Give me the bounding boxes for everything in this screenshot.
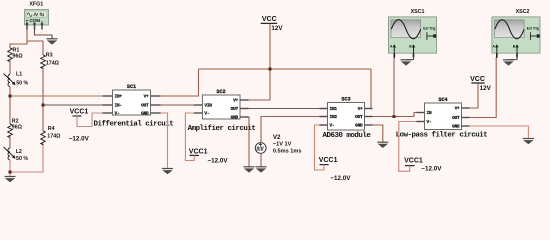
subcircuit SC2 xyxy=(194,89,249,121)
svg-text:XSC1: XSC1 xyxy=(411,9,425,15)
wire bottom net to R4 xyxy=(10,143,43,172)
oscilloscope XSC1 xyxy=(388,9,436,58)
resistor R4 xyxy=(41,126,61,145)
oscilloscope XSC2 xyxy=(492,9,540,58)
ground at SC1 xyxy=(162,169,173,175)
svg-text:L1: L1 xyxy=(16,72,22,78)
svg-text:VCC1: VCC1 xyxy=(404,158,423,165)
wire SC4 GND to ground xyxy=(470,126,529,138)
junction bottom net xyxy=(9,171,12,174)
junction VCC rail xyxy=(269,68,272,71)
svg-text:IN2: IN2 xyxy=(330,114,338,120)
junction right tap xyxy=(42,104,45,107)
wire R2 to L2 xyxy=(9,136,11,148)
wire SC2 OUT to SC3 IN1 xyxy=(249,108,320,110)
svg-text:VCC: VCC xyxy=(262,16,277,23)
svg-text:OUT: OUT xyxy=(141,102,149,108)
wire bridge left tap to SC1 IN+ xyxy=(10,95,103,97)
wire XSC1 probe A down xyxy=(393,57,395,117)
ground at XSC2 xyxy=(503,60,514,66)
wire XSC2 B to ground xyxy=(509,57,518,60)
ground at XFG1 xyxy=(47,39,58,45)
svg-text:0.5ms 1ms: 0.5ms 1ms xyxy=(273,149,302,155)
wire V2 - to ground xyxy=(260,153,262,167)
svg-text:VCC1: VCC1 xyxy=(319,157,338,164)
subcircuit SC4 xyxy=(417,97,470,130)
svg-text:12V: 12V xyxy=(480,85,492,92)
wire V2 + to SC3 IN2 xyxy=(261,117,320,144)
wire XFG1 + to R1 branch xyxy=(10,30,27,48)
svg-text:R4: R4 xyxy=(48,126,55,132)
ground at SC4 xyxy=(523,139,534,145)
svg-text:SC1: SC1 xyxy=(127,84,136,90)
svg-text:−12.0V: −12.0V xyxy=(69,135,90,142)
svg-text:IN-: IN- xyxy=(115,102,122,108)
ground at SC2 xyxy=(244,167,255,173)
svg-text:IN: IN xyxy=(427,110,432,116)
svg-text:Ext Trig: Ext Trig xyxy=(423,27,435,31)
wire L2 to ground with bottom tee xyxy=(9,160,11,177)
svg-text:−12.0V: −12.0V xyxy=(208,158,229,165)
resistor R1 xyxy=(8,48,24,63)
svg-text:174Ω: 174Ω xyxy=(47,134,61,140)
svg-text:IN1: IN1 xyxy=(330,106,338,112)
XFG1 pin + xyxy=(26,25,28,30)
wire SC2 GND to ground xyxy=(248,117,251,167)
svg-text:−12.0V: −12.0V xyxy=(330,175,351,182)
wire SC1 OUT to SC2 VIN xyxy=(161,104,195,106)
svg-text:V-: V- xyxy=(204,110,209,116)
wire XSC1 B to ground xyxy=(406,57,414,60)
XFG1 pin - xyxy=(41,25,43,30)
svg-text:V+: V+ xyxy=(358,106,363,112)
subcircuit SC1 xyxy=(103,84,161,117)
svg-text:Ext Trig: Ext Trig xyxy=(527,27,539,31)
svg-text:R2: R2 xyxy=(12,118,19,124)
svg-text:50 %: 50 % xyxy=(16,81,28,87)
junction left tap xyxy=(9,95,12,98)
svg-text:OUT: OUT xyxy=(452,115,460,121)
power rail VCC1 for SC2 (-12V) xyxy=(185,113,228,165)
svg-text:SC3: SC3 xyxy=(341,96,350,102)
wire L1 to R2 with tap node xyxy=(9,87,11,124)
svg-text:96Ω: 96Ω xyxy=(12,125,23,131)
svg-text:Amplifier circuit: Amplifier circuit xyxy=(188,125,256,133)
wire R3 to R4 with tap xyxy=(42,67,44,130)
svg-text:V-: V- xyxy=(330,122,335,128)
wire bridge right tap to SC1 IN- xyxy=(43,104,103,106)
svg-text:VCC1: VCC1 xyxy=(70,109,89,116)
ground below L2 xyxy=(5,177,16,183)
XSC1 probe pin A xyxy=(393,44,397,58)
svg-text:SC2: SC2 xyxy=(216,89,225,95)
svg-text:OUT: OUT xyxy=(231,106,239,112)
svg-text:XFG1: XFG1 xyxy=(29,1,43,7)
svg-text:GND: GND xyxy=(452,123,460,129)
ground at XSC1 xyxy=(401,60,412,66)
wire +12V rail xyxy=(199,68,372,70)
junction scope tap xyxy=(393,115,396,118)
svg-text:OUT: OUT xyxy=(355,114,363,120)
svg-text:50 %: 50 % xyxy=(16,156,28,162)
XFG1 pin COM xyxy=(34,25,36,30)
svg-text:XSC2: XSC2 xyxy=(516,9,530,15)
ground at V2 xyxy=(256,167,267,173)
svg-text:IN+: IN+ xyxy=(115,93,123,99)
subcircuit SC3 xyxy=(320,96,373,130)
XSC2 probe pin B xyxy=(515,44,519,58)
wire XFG1 COM to ground xyxy=(35,30,53,39)
wire XFG1 + tee to R3 branch xyxy=(27,41,43,55)
power source VCC 12V top xyxy=(261,16,284,32)
svg-text:96Ω: 96Ω xyxy=(13,54,24,60)
svg-text:VIN: VIN xyxy=(204,102,212,108)
svg-text:V+: V+ xyxy=(455,105,460,111)
svg-text:SC4: SC4 xyxy=(438,97,447,103)
ground at SC3 xyxy=(377,142,388,148)
svg-text:+: + xyxy=(26,18,29,23)
power source VCC 12V right xyxy=(470,76,492,92)
svg-text:V+: V+ xyxy=(144,93,149,99)
svg-text:V+: V+ xyxy=(233,97,238,103)
wire rail to SC3 V+ xyxy=(370,69,372,109)
svg-text:−1V 1V: −1V 1V xyxy=(273,142,292,148)
XSC2 probe pin A xyxy=(495,44,499,58)
wire SC1 GND to ground xyxy=(161,113,168,168)
wire SC1 V+ to +12V rail xyxy=(161,69,199,96)
svg-text:GND: GND xyxy=(141,110,149,116)
power rail VCC1 for SC1 (-12V) xyxy=(69,109,103,143)
wire R1 to L1 xyxy=(9,60,11,74)
svg-text:AD630 module: AD630 module xyxy=(323,132,372,140)
svg-text:GND: GND xyxy=(231,114,239,120)
svg-text:COM: COM xyxy=(29,18,40,23)
svg-text:174Ω: 174Ω xyxy=(46,60,60,66)
svg-text:V2: V2 xyxy=(273,134,281,141)
wire VCC right to SC4 V+ xyxy=(470,84,479,108)
wire SC3 GND to ground xyxy=(373,125,383,142)
svg-text:V-: V- xyxy=(427,119,432,125)
svg-text:Differential circuit: Differential circuit xyxy=(94,120,174,128)
variable inductor L1 xyxy=(4,72,29,87)
pulse source V2 xyxy=(255,134,301,155)
resistor R2 xyxy=(8,118,23,138)
svg-text:−12.0V: −12.0V xyxy=(421,166,442,173)
wire VCC stem down to rail and SC2 V+ xyxy=(249,24,271,100)
function generator XFG1 xyxy=(25,1,49,29)
svg-text:R3: R3 xyxy=(46,52,53,58)
svg-text:VCC1: VCC1 xyxy=(189,149,208,156)
svg-text:GND: GND xyxy=(355,122,363,128)
svg-text:V-: V- xyxy=(115,110,120,116)
variable inductor L2 xyxy=(4,147,29,162)
power rail VCC1 for SC4 (-12V) xyxy=(399,122,442,173)
XSC1 probe pin B xyxy=(412,44,416,58)
wire SC4 OUT to XSC2 probe A xyxy=(470,57,497,118)
svg-text:12V: 12V xyxy=(271,25,283,32)
svg-text:VCC: VCC xyxy=(470,76,485,83)
svg-text:L2: L2 xyxy=(16,149,22,155)
power rail VCC1 for SC3 (-12V) xyxy=(315,125,352,182)
svg-text:Low-pass filter circuit: Low-pass filter circuit xyxy=(396,131,488,139)
resistor R3 xyxy=(41,52,60,69)
wire SC3 OUT to SC4 IN xyxy=(373,113,417,117)
